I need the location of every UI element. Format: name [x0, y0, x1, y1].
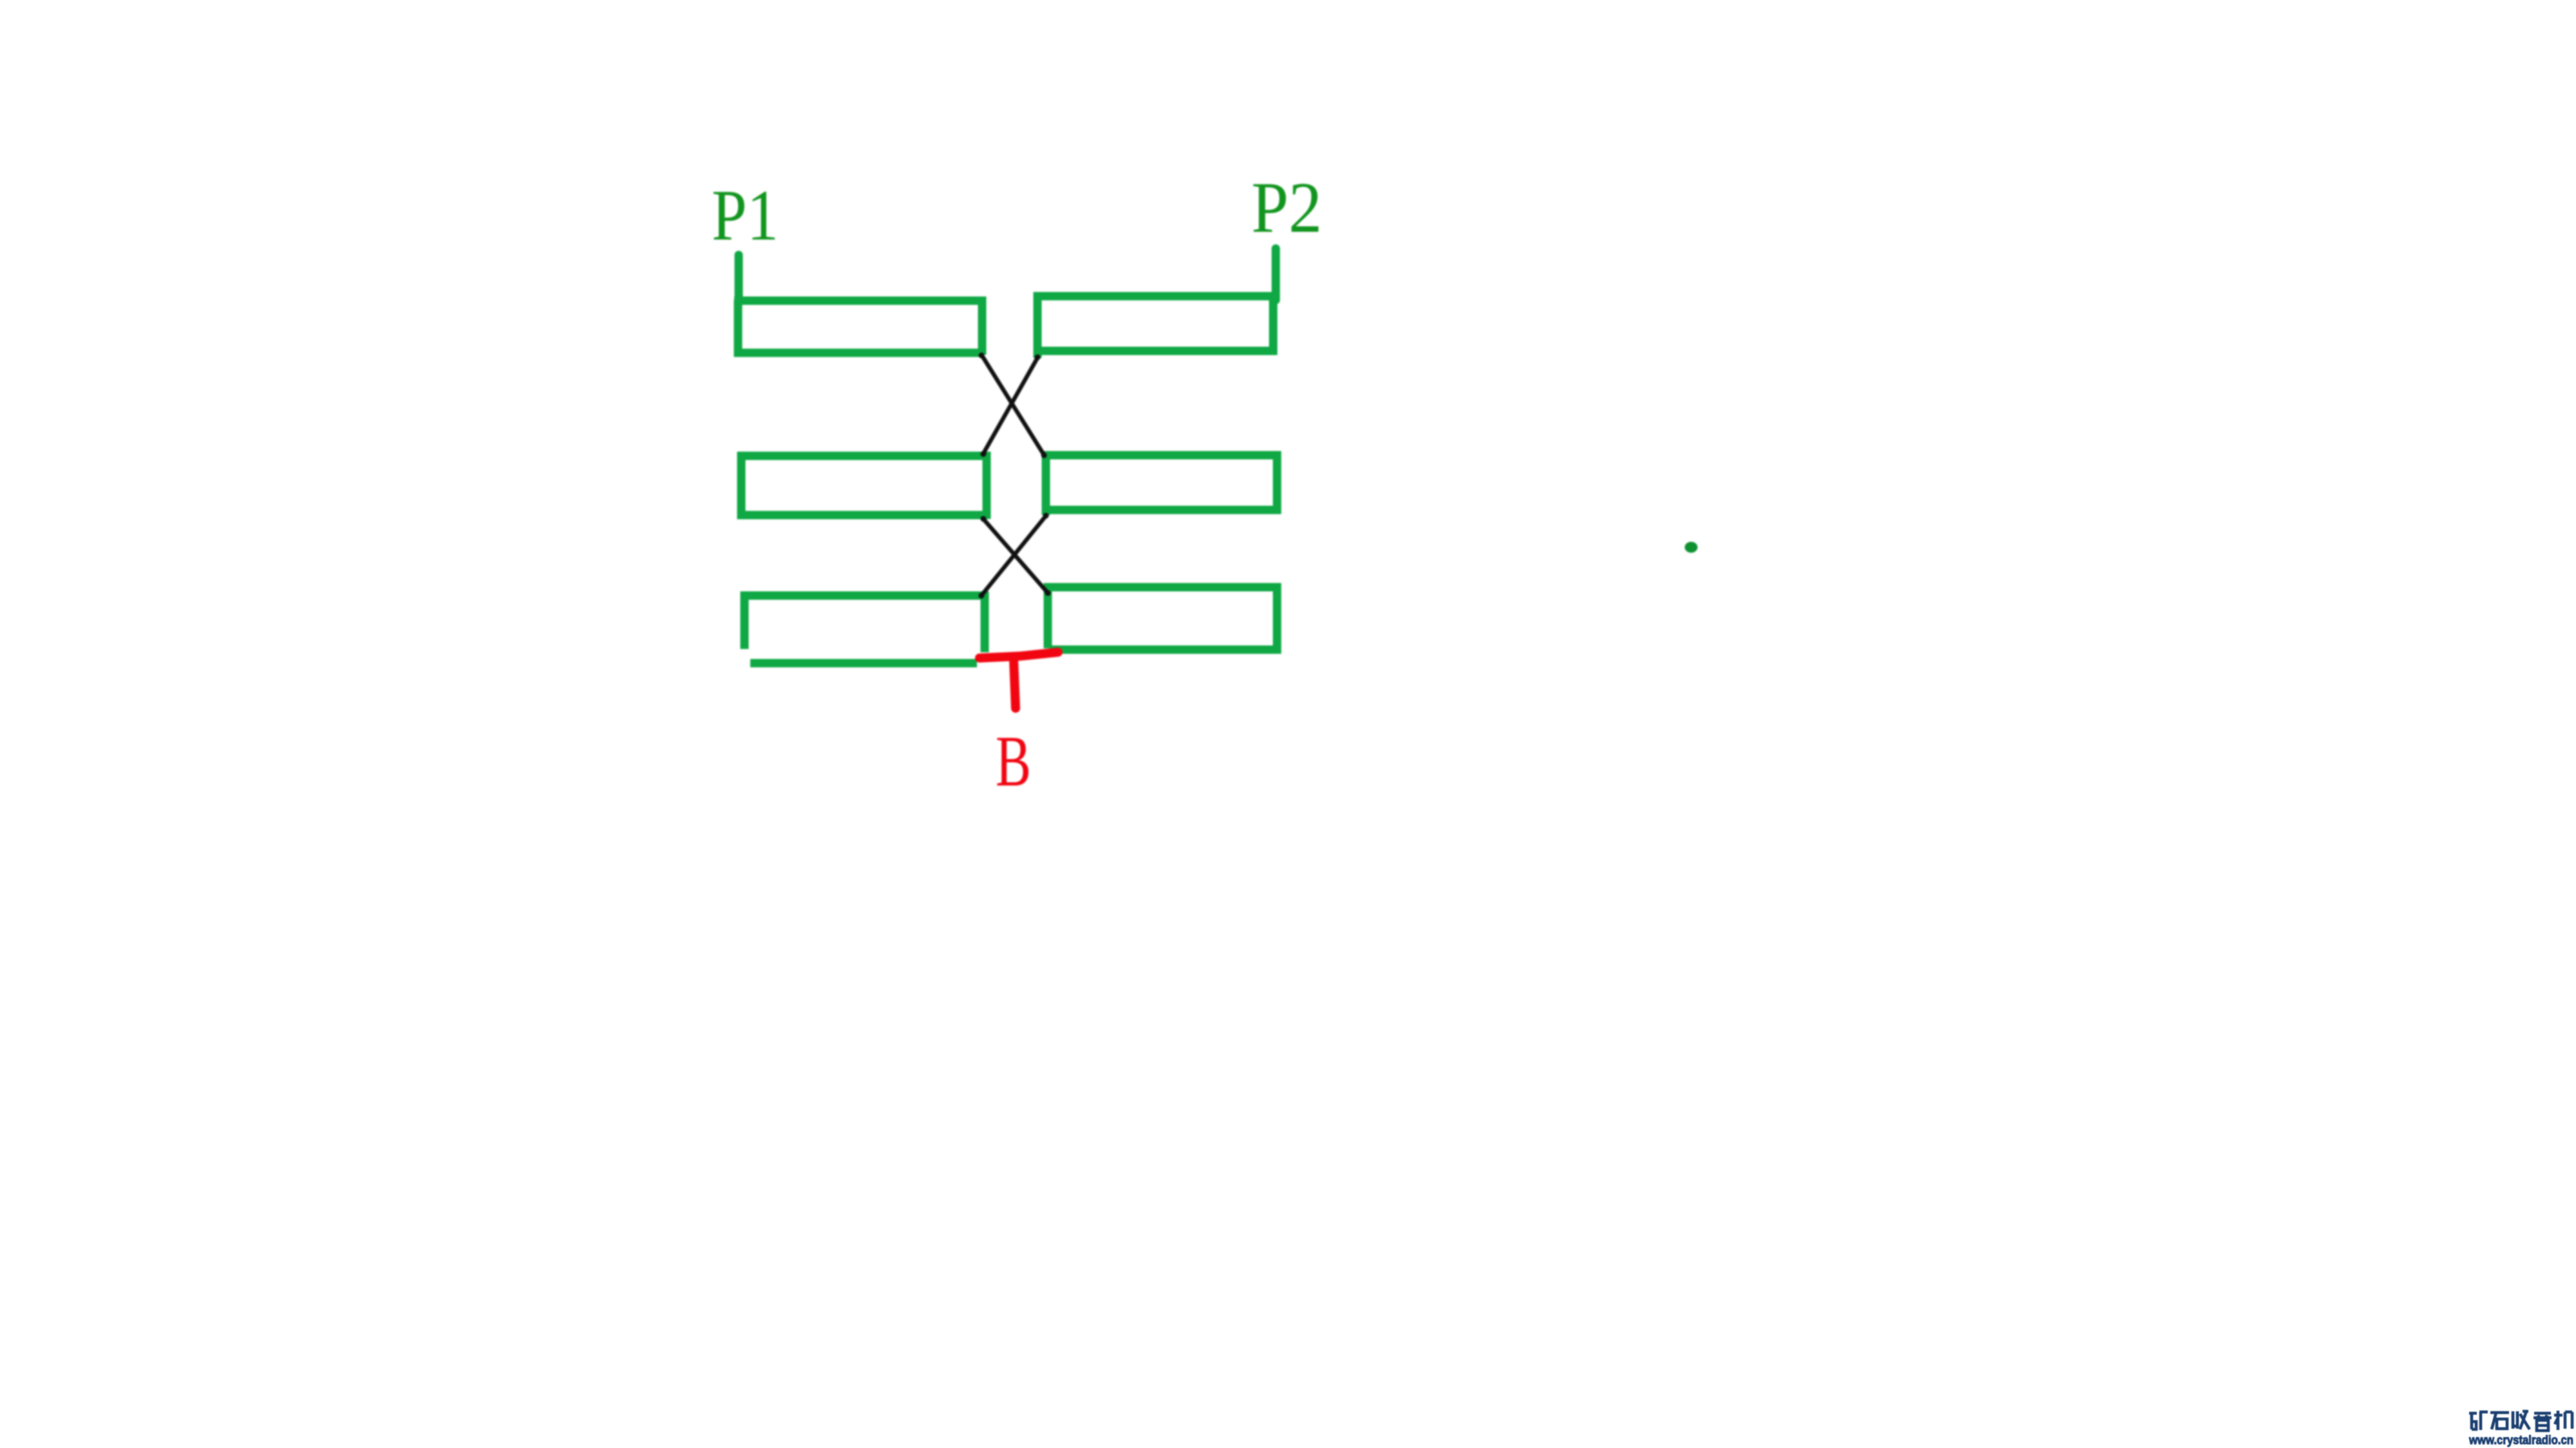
svg-text:P2: P2: [1251, 168, 1322, 248]
solder dot: [1685, 542, 1698, 553]
tap B bar: [980, 652, 1058, 658]
tap B lead: [1014, 659, 1016, 708]
winding section R3: [1048, 587, 1277, 650]
watermark logo yin: [2533, 1413, 2552, 1431]
svg-text:B: B: [996, 722, 1031, 802]
winding section L3: [744, 596, 985, 663]
winding section L2: [741, 456, 987, 519]
watermark logo ji: [2554, 1411, 2572, 1430]
svg-text:P1: P1: [712, 176, 779, 256]
winding section R1: [1037, 296, 1273, 358]
terminal lead P2: [1272, 249, 1280, 300]
svg-text:www.crystalradio.cn: www.crystalradio.cn: [2468, 1433, 2573, 1447]
winding section L1: [734, 300, 982, 355]
crossover wire X1a: [981, 355, 1045, 456]
watermark logo kuang: [2469, 1412, 2488, 1430]
winding section R2: [1046, 455, 1277, 515]
crossover wire X2b: [981, 515, 1046, 596]
terminal lead P1: [735, 255, 743, 303]
watermark logo shi: [2490, 1413, 2509, 1429]
watermark logo shou: [2513, 1411, 2530, 1429]
crossover wire X2a: [983, 518, 1048, 594]
crossover junction blobs: [979, 353, 1051, 599]
crossover wire X1b: [983, 357, 1038, 455]
